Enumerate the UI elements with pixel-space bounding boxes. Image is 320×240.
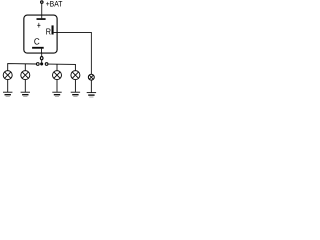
- indicator lamp: [88, 74, 94, 80]
- relay box: [24, 15, 57, 53]
- ground lead L1: [7, 80, 9, 92]
- ground L4: [71, 92, 80, 96]
- lamp L4: [71, 71, 80, 80]
- svg-text:+BAT: +BAT: [46, 0, 63, 8]
- ground indicator: [87, 93, 96, 97]
- switch pole stub: [41, 60, 43, 63]
- svg-text:R: R: [46, 26, 51, 36]
- switch left contact: [36, 63, 39, 66]
- ground L2: [21, 92, 30, 96]
- ground lead indicator: [90, 80, 92, 92]
- lamp L1: [3, 71, 12, 80]
- resistor R bar: [52, 25, 54, 34]
- wire capacitor to box bottom: [41, 49, 43, 54]
- lamp L3: [53, 71, 62, 80]
- bottom terminal: [40, 57, 43, 60]
- ground lead L3: [56, 80, 58, 92]
- ground lead L2: [24, 80, 26, 92]
- stub box bottom to terminal: [41, 53, 43, 56]
- wire terminal to box: [41, 3, 43, 15]
- ground L1: [3, 92, 12, 96]
- capacitor C plate: [32, 47, 44, 49]
- wire R to indicator lamp: [54, 32, 92, 74]
- switch right contact: [45, 63, 48, 66]
- ground lead L4: [74, 80, 76, 92]
- bimetal contact bar: [37, 18, 46, 20]
- plus polarity mark: [37, 23, 40, 28]
- wire stub into box: [41, 15, 43, 18]
- svg-text:C: C: [34, 36, 40, 46]
- lamp 2 drop wire: [24, 64, 26, 71]
- left bus wire: [8, 64, 37, 71]
- ground L3: [52, 92, 61, 96]
- lamp L2: [21, 71, 30, 80]
- terminal +BAT: [41, 1, 43, 3]
- lamp 3 drop wire: [56, 64, 58, 71]
- switch pole dot: [40, 62, 43, 65]
- right bus wire: [48, 64, 76, 71]
